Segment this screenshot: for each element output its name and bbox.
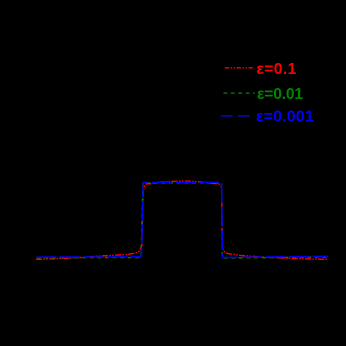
curve epsilon=0.01 (green dashed) bbox=[37, 183, 329, 258]
legend sample line epsilon=0.001 bbox=[221, 115, 251, 117]
svg-text:ε=0.1: ε=0.1 bbox=[257, 61, 297, 78]
svg-text:ε=0.01: ε=0.01 bbox=[257, 86, 303, 103]
legend sample line epsilon=0.1 bbox=[225, 67, 255, 69]
curve epsilon=0.1 (red dash-dot-dot) bbox=[36, 181, 328, 259]
svg-text:ε=0.001: ε=0.001 bbox=[256, 109, 314, 126]
curve epsilon=0.001 (blue long-dash) bbox=[37, 182, 329, 257]
legend sample line epsilon=0.01 bbox=[224, 92, 255, 94]
